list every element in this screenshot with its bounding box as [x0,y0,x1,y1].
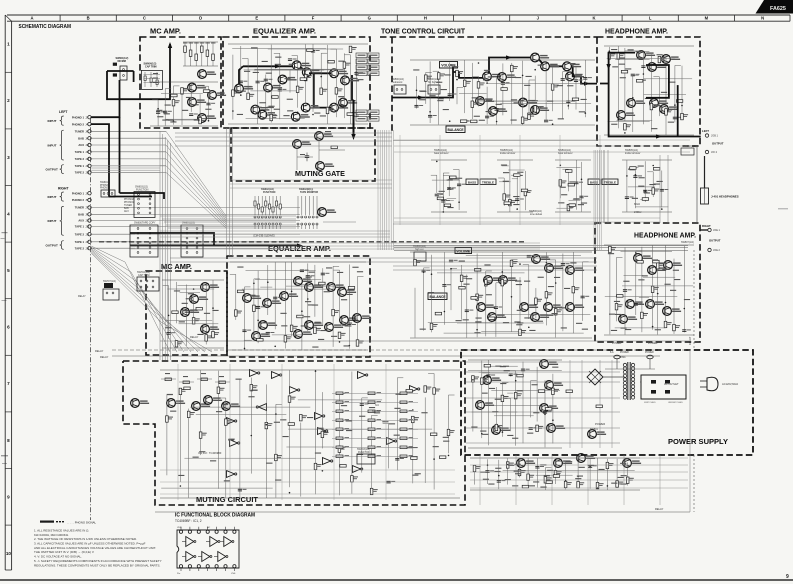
BASS label 1 [466,179,478,185]
MC amp resistor grid [183,42,218,66]
transistor Q25 [531,53,550,62]
svg-text:FA625: FA625 [770,6,786,12]
MUTING CIRCUIT box [123,361,465,505]
transistor Q71 [340,316,359,325]
capacitor C1 [305,153,309,162]
transistor Q86 [492,426,511,435]
svg-text:CAP TRIM: CAP TRIM [138,274,149,277]
wire headphone down [704,156,706,188]
svg-text:MC AMP.: MC AMP. [161,264,192,271]
signal name stack [124,199,134,213]
MUTING GATE box [231,128,375,181]
transistor Q66 [280,292,299,301]
SW602 FUNCTION center [254,188,281,229]
jack TAPE 2 J18 [75,171,91,175]
svg-text:N: N [761,16,764,21]
svg-text:TREBLE: TREBLE [482,180,494,184]
transistor Q91 [577,454,596,463]
transistor Q64 [259,321,278,330]
svg-text:TAPE 1: TAPE 1 [75,240,85,244]
svg-text:RELAY: RELAY [95,349,104,353]
transistor Q48 [531,313,550,322]
BASS label 2 [588,179,600,185]
svg-text:PHONO 2: PHONO 2 [72,122,85,126]
svg-text:treble turnover: treble turnover [625,152,641,155]
svg-text:RIGHT: RIGHT [702,224,711,228]
svg-text:BAB: BAB [78,213,84,217]
svg-text:TC4069BF : IC1, 2: TC4069BF : IC1, 2 [175,519,202,523]
wire bus from right jacks [91,208,300,249]
transistor Q17 [330,103,349,112]
transistor Q92 [623,459,642,468]
vertical bus left-center [160,131,170,360]
inverter op-amp [318,428,328,435]
svg-text:TAPE 2: TAPE 2 [75,171,85,175]
transistor Q27 [563,62,582,71]
diagonal fan wires [91,246,212,352]
svg-text:3. ALL CAPACITANCE VALUES ARE: 3. ALL CAPACITANCE VALUES ARE IN µF UNLE… [34,542,146,546]
TREBLE label 2 [602,179,618,185]
transistor Q79 [204,396,223,405]
wire mid band [175,133,392,188]
transistor Q84 [540,404,559,413]
svg-text:VSS: VSS [231,573,236,575]
svg-text:POWER: POWER [645,352,654,354]
transistor Q1 [198,70,217,79]
VOLUME lower [455,248,472,254]
transistor Q42 [532,255,551,264]
svg-text:SW507(1/2): SW507(1/2) [681,241,694,244]
svg-text:VOLUME: VOLUME [456,249,470,253]
transistor Q29 [476,97,495,106]
wire rails [622,160,672,212]
left output jacks [702,129,724,154]
transistor Q2 [188,83,207,92]
transistor Q74 [305,321,324,330]
wire rails [230,262,366,350]
IC pins bottom [179,565,236,571]
transistor Q63 [263,299,282,308]
transistor Q15 [291,112,309,121]
svg-text:TAPE 1: TAPE 1 [75,164,85,168]
wire rails [228,44,368,124]
transistor Q85 [547,424,566,433]
svg-text:10: 10 [6,551,12,556]
svg-text:5: 5 [7,268,10,273]
wire rails [410,252,592,338]
svg-text:BASS: BASS [468,180,476,184]
wire below power supply [470,350,690,512]
transistor Q20 [315,132,334,141]
transistor Q19 [293,140,312,149]
jack BAB J8 [78,136,91,140]
inverter op-amp [250,370,260,377]
IC inverters bottom row [182,552,228,562]
svg-text:subsonic: subsonic [393,81,403,84]
SW602 TAPE MONITOR center [297,188,318,229]
jack TAPE 1 J17 [75,240,91,244]
tone lower rails [160,246,690,342]
svg-text:N.C: N.C [375,404,379,407]
transistor Q70 [338,288,357,297]
SW707 MC/MM lower switch [103,280,119,300]
phono dashed route across [99,241,525,243]
fuse F801 [610,351,629,359]
muting input parts [161,373,230,384]
svg-text:7: 7 [7,381,10,386]
svg-text:TREBLE: TREBLE [604,180,616,184]
margin specks [1,208,789,464]
HEADPHONE AMP box (upper) [597,37,700,146]
svg-text:IC1,IC2 : TC4069BF: IC1,IC2 : TC4069BF [198,451,222,455]
jack TAPE 2 J14 [75,157,91,161]
transistor Q44 [566,266,585,275]
svg-text:MC AMP.: MC AMP. [150,29,181,36]
jack AUX J10 [78,143,91,147]
svg-text:PHONO2: PHONO2 [100,187,111,190]
transistor Q72 [325,323,344,332]
transistor Q76 [131,399,150,408]
svg-text:T801: T801 [620,356,626,359]
svg-text:OUTPUT: OUTPUT [712,142,724,146]
svg-text:FUNCTION: FUNCTION [358,451,371,454]
transistor Q82 [540,360,559,369]
svg-text:INPUT: INPUT [48,119,57,123]
svg-text:TUNER: TUNER [75,206,84,210]
transistor Q73 [294,330,313,339]
wire rails [431,160,467,213]
transistor Q80 [222,402,241,411]
BALANCE lower [428,293,447,300]
AC outlet [641,375,686,404]
transistor Q68 [305,283,324,292]
transistor Q60 [181,308,200,317]
svg-text:SW801: SW801 [590,428,599,431]
svg-text:L: L [649,16,652,21]
wire hp lower out [700,229,708,231]
inverter op-amp [290,387,300,394]
svg-text:F: F [312,16,315,21]
transistor Q89 [517,459,536,468]
jack TAPE 1 J13 [75,225,91,229]
transistor Q41 [499,276,517,285]
top ruler strip [7,15,790,21]
MC AMP box (upper) [140,37,221,128]
IC pins top [179,527,236,534]
ribbon connector CM-03B [253,233,275,237]
svg-text:PHONO1: PHONO1 [124,202,134,204]
power interior rails [466,360,620,448]
svg-text:INPUT: INPUT [48,219,57,223]
svg-text:OUTPUT: OUTPUT [46,168,59,172]
svg-text:SCHEMATIC DIAGRAM: SCHEMATIC DIAGRAM [19,24,72,30]
svg-text:INPUT: INPUT [48,144,57,148]
jack TAPE 1 J16 [75,164,91,168]
svg-text:1. ALL RESISTANCE VALUES ARE: 1. ALL RESISTANCE VALUES ARE IN Ω. [34,529,89,533]
svg-text:treble turnover: treble turnover [500,152,516,155]
svg-text:NC: NC [207,527,211,529]
transistor Q9 [292,61,310,70]
relay wires [78,295,690,359]
svg-text:9: 9 [7,494,10,499]
svg-text:EQUALIZER AMP.: EQUALIZER AMP. [268,246,331,253]
svg-text:. . . . . PHONO SIGNAL: . . . . . PHONO SIGNAL [67,520,97,524]
SW901 MC/MM switch [113,57,129,80]
transistor Q55 [646,300,665,309]
svg-text:RELAY: RELAY [78,295,86,298]
TONE CONTROL CIRCUIT box [380,36,597,38]
svg-text:LEFT: LEFT [702,129,709,133]
phono bold to function [120,193,165,199]
transistor Q12 [341,76,360,85]
transformer T801 [620,356,635,400]
inverter op-amp [410,386,420,393]
IC inverters top row [182,537,234,547]
bracket input right [60,192,64,201]
svg-text:JOB 1: JOB 1 [711,135,719,138]
transistor Q38 [650,99,669,108]
svg-text:M: M [705,16,709,21]
TREBLE label 1 [480,179,496,185]
svg-text:VDD: VDD [177,527,182,529]
POWER SUPPLY box [461,350,753,455]
transistor Q49 [544,303,563,312]
transistor Q45 [477,303,496,312]
transistor Q43 [545,264,564,273]
phono signal legend [40,520,97,524]
svg-text:SW707(1/2): SW707(1/2) [103,280,116,283]
jack PHONO 1 J3 [72,191,91,195]
transistor Q77 [167,399,186,408]
svg-text:HEADPHONE AMP.: HEADPHONE AMP. [605,29,668,36]
transistor Q67 [294,277,313,286]
svg-text:J-401 HEADPHONES: J-401 HEADPHONES [711,195,739,199]
svg-text:TAPE 2: TAPE 2 [75,246,85,250]
svg-text:EQUALIZER AMP.: EQUALIZER AMP. [253,29,316,36]
svg-text:tone defeat: tone defeat [530,213,542,216]
SW500 subsonic [391,78,406,94]
svg-text:1: 1 [7,42,10,47]
transistor Q83 [545,381,564,390]
transistor Q50 [566,303,585,312]
svg-text:PHONO 2: PHONO 2 [72,198,85,202]
wire rails [470,458,640,490]
svg-text:9: 9 [786,574,789,580]
bridge rectifier [587,369,603,385]
svg-text:UNSWITCHED: UNSWITCHED [668,402,683,404]
svg-text:RIGHT: RIGHT [58,187,69,191]
bottom rule [0,579,793,581]
svg-text:D: D [199,16,202,21]
MC AMP box (lower) [146,271,227,355]
svg-text:PHONO 1: PHONO 1 [72,191,85,195]
inverter op-amp [315,413,325,420]
transistor Q8 [278,75,297,84]
VOLUME control [440,62,458,69]
jack TUNER J7 [75,206,91,210]
wire rails [555,160,591,212]
wire harness center [130,130,601,250]
transistor Q75 [353,314,372,323]
svg-text:8-A: 8-A [610,351,614,354]
svg-text:PHONO2: PHONO2 [124,199,134,201]
svg-text:MUTING GATE: MUTING GATE [295,171,345,178]
transistor Q4 [198,114,217,123]
muting gate wires [297,131,345,170]
transistor Q88 [476,401,495,410]
jack TUNER J6 [75,130,91,134]
svg-text:G: G [368,16,371,21]
svg-text:I: I [481,16,482,21]
wire right verticals [694,146,697,512]
bracket input [60,116,64,125]
bold wire to muting gate [353,100,355,136]
relay bold wire [130,245,300,247]
transistor Q36 [627,99,646,108]
wire tone row links [394,135,690,225]
svg-text:C: C [143,16,146,21]
transistor Q59 [190,295,209,304]
muting resistor stack [332,392,418,458]
svg-text:BALANCE: BALANCE [429,295,446,299]
SW601 TAPE MON left module [181,222,203,258]
transistor Q16 [301,103,319,112]
transistor Q31 [519,98,538,107]
SW500 high cut [426,78,441,94]
svg-text:POWER: POWER [612,342,622,345]
BALANCE control [446,126,465,133]
jack PHONO 1 J2 [72,115,91,119]
wire rails [150,82,218,126]
transistor Q40 [484,276,503,285]
headphone jack [701,188,739,204]
corner tab FA625 [756,0,793,14]
transistor Q14 [258,110,277,119]
wire rails [468,360,562,448]
SW601 phono selector [100,181,115,197]
transistor Q69 [327,283,346,292]
relay bottom wire [155,507,690,512]
transistor Q28 [566,72,585,81]
svg-text:MC/MM: MC/MM [118,60,126,63]
svg-text:TAPE COPY: TAPE COPY [142,222,156,225]
svg-text:SWITCHED: SWITCHED [644,402,656,404]
HEADPHONE AMP box (lower) [595,223,700,342]
svg-text:OUTPUT: OUTPUT [46,244,59,248]
svg-text:AUX: AUX [124,210,129,213]
transistor Q81 [483,376,502,385]
jack TAPE 1 J12 [75,150,91,154]
transistor Q46 [488,313,507,322]
AC plug [700,377,739,391]
svg-text:TUNER: TUNER [75,130,84,134]
svg-text:240Hz: 240Hz [634,210,642,214]
transistor Q3 [188,98,207,107]
svg-text:TUNER: TUNER [124,205,132,207]
svg-text:TAPE 2: TAPE 2 [75,157,85,161]
jack PHONO 2 J4 [72,122,91,126]
transistor Q11 [330,69,349,78]
jack TAPE 2 J19 [75,246,91,250]
transistor Q18 [339,98,358,107]
svg-text:BAB: BAB [124,207,129,210]
inverter op-amp [256,404,266,411]
transistor Q58 [201,283,220,292]
svg-text:LEFT: LEFT [59,110,68,114]
MC amp bold loop [107,70,134,72]
wire muting bus verticals [160,364,455,500]
svg-text:JOE 2: JOE 2 [713,249,721,252]
transistor Q23 [483,72,502,81]
svg-text:RELAY: RELAY [100,355,109,359]
svg-text:POWER SUPPLY: POWER SUPPLY [668,437,728,446]
svg-text:SW502(1/2): SW502(1/2) [683,145,696,148]
transistor Q87 [588,430,607,439]
transistor Q78 [192,402,211,411]
phono bold path [91,80,119,117]
right output jacks [681,224,721,252]
svg-text:RELAY: RELAY [688,336,692,345]
wire long horizontals [170,141,597,271]
svg-text:INPUT: INPUT [48,195,57,199]
inverter op-amp [387,438,397,445]
jack BAB J9 [78,213,91,217]
svg-text:RELAY: RELAY [190,335,199,339]
wire rails [162,280,224,348]
wire rails [604,46,694,135]
transistor Q22 [318,208,337,217]
inverter op-amp [272,372,282,379]
transistor Q51 [634,254,653,263]
svg-text:CAP TRIM: CAP TRIM [145,65,157,68]
transistor Q26 [541,62,560,71]
bold switch loop lower [130,233,214,246]
phono signal dash-dot vertical [90,117,92,520]
svg-text:2: 2 [7,98,10,103]
transistor Q5 [208,91,227,100]
transistor Q39 [660,105,679,114]
svg-text:FUNCTION: FUNCTION [263,191,276,194]
wire rails [604,245,694,335]
svg-text:BALANCE: BALANCE [447,128,464,132]
SW703 FUNCTION [357,448,375,464]
transistor Q24 [498,73,516,82]
svg-text:OUTPUT: OUTPUT [709,239,721,243]
svg-text:TAPE MONITOR: TAPE MONITOR [300,191,318,194]
tone module SW504(1/2) [558,149,573,155]
transistor Q34 [662,55,681,64]
svg-text:bass turnover: bass turnover [434,152,449,155]
inverter op-amp [323,458,333,465]
svg-text:3: 3 [7,155,10,160]
SW603 FUNCTION left [134,186,155,218]
inverter op-amp [230,440,240,447]
jack TAPE 2 J15 [75,232,91,236]
transistor Q57 [663,307,682,316]
transistor Q65 [252,332,271,341]
svg-text:B: B [87,16,90,21]
inverter op-amp [353,466,363,473]
wire rails [497,160,533,212]
svg-text:TAPE 2: TAPE 2 [75,232,85,236]
inverter op-amp [358,372,368,379]
transistor Q61 [201,325,220,334]
svg-text:TAPE 1: TAPE 1 [75,150,85,154]
transistor Q37 [617,111,636,120]
transistor Q13 [251,105,269,114]
tone upper bold path [392,97,450,99]
transistor Q21 [316,162,335,171]
